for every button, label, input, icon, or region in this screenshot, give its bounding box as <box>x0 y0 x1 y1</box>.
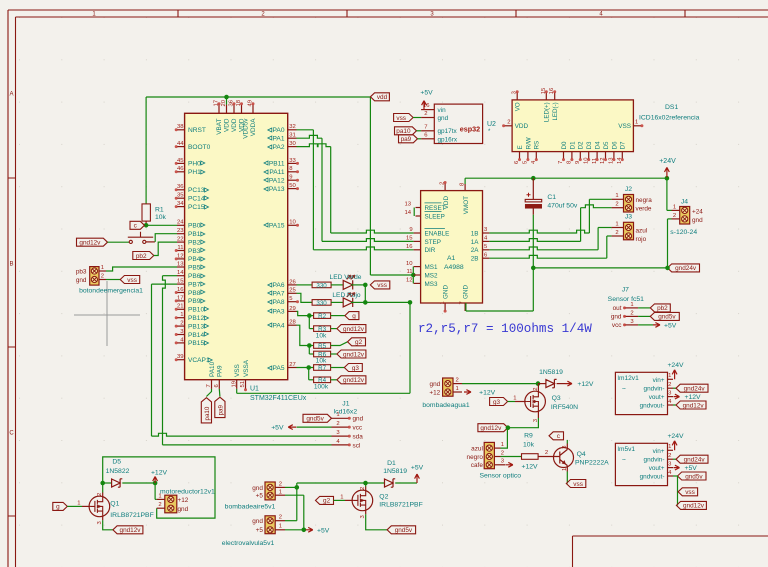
global label pa9 (vertical) <box>215 397 225 417</box>
svg-text:J4: J4 <box>681 198 688 205</box>
U2 pin 6 gp16rx <box>421 138 434 140</box>
svg-text:1: 1 <box>635 119 638 125</box>
junction +24V arrow <box>665 176 670 181</box>
resistor R9 10k <box>522 454 539 460</box>
svg-text:14: 14 <box>177 270 184 276</box>
wire bombadeaire +5 <box>285 494 304 496</box>
wire PA4 to R5 <box>297 325 310 345</box>
svg-text:g: g <box>352 313 356 320</box>
svg-text:gnd: gnd <box>430 381 441 388</box>
svg-text:PA5: PA5 <box>273 365 285 372</box>
svg-text:PH1: PH1 <box>188 169 201 176</box>
svg-text:J1: J1 <box>342 400 349 407</box>
svg-text:25: 25 <box>289 288 296 294</box>
DS1 pin 1 VSS <box>618 119 643 130</box>
DS1 bottom pin 5 R/W <box>523 137 533 164</box>
svg-text:+12: +12 <box>429 389 440 396</box>
svg-text:pb2: pb2 <box>136 253 147 260</box>
wire R1 to PB0 <box>146 224 177 226</box>
A1 pin 5 2A <box>471 244 490 254</box>
svg-text:PB14: PB14 <box>188 332 204 339</box>
U1 pin 33 PB11 <box>264 158 299 168</box>
wire 330 to LED verde <box>331 284 343 286</box>
wire PA9 to pa9 label <box>218 389 221 397</box>
svg-text:VDD: VDD <box>231 118 238 132</box>
svg-text:1N5822: 1N5822 <box>106 468 130 475</box>
wire PA1 to STEP (top) <box>297 135 323 138</box>
svg-text:r2,r5,r7 = 100ohms 1/4W: r2,r5,r7 = 100ohms 1/4W <box>418 322 592 336</box>
svg-text:1N5819: 1N5819 <box>539 369 563 376</box>
junction R1 bottom <box>144 223 149 228</box>
svg-text:2: 2 <box>456 378 459 384</box>
svg-text:gndvout-: gndvout- <box>640 402 665 409</box>
DS1 top pin 16 LED(-) <box>549 87 559 120</box>
svg-text:SLEEP: SLEEP <box>425 213 445 220</box>
svg-text:D0: D0 <box>561 141 568 149</box>
wire electrovalvula gnd <box>285 520 297 522</box>
DS1 bottom pin 6 E <box>514 145 524 164</box>
svg-text:Sensor optico: Sensor optico <box>480 473 522 480</box>
wire Q2 drain up <box>365 483 367 487</box>
svg-text:PB10: PB10 <box>188 307 204 314</box>
wire PA10 to pa10 label <box>206 389 211 397</box>
svg-text:R1: R1 <box>155 206 164 213</box>
power symbol +5V at esp32 vin <box>422 101 427 110</box>
svg-text:IRF540N: IRF540N <box>551 404 578 411</box>
svg-text:+5V: +5V <box>271 425 284 432</box>
junction PA5/R7/R4 <box>306 365 311 370</box>
resistor R1 10k <box>142 204 167 225</box>
U1 pin 23 PB1 <box>177 228 205 238</box>
svg-text:7: 7 <box>424 124 427 130</box>
svg-text:46: 46 <box>177 166 184 172</box>
svg-text:J7: J7 <box>622 287 629 294</box>
svg-text:gnd12v: gnd12v <box>683 503 705 510</box>
svg-text:MS2: MS2 <box>425 272 438 279</box>
wire J7 gnd to gnd5v <box>638 315 650 317</box>
svg-text:electrovalvula5v1: electrovalvula5v1 <box>222 540 275 547</box>
wire bombadeagua gnd to Q3 drain <box>462 383 538 385</box>
global label gnd5v at J7 <box>650 312 679 320</box>
U2 pin 7 gp17tx <box>421 130 434 132</box>
svg-text:Q4: Q4 <box>577 451 586 458</box>
wire PA2 to ENABLE (top) <box>297 144 331 147</box>
svg-text:PA0: PA0 <box>273 127 285 134</box>
resistor R2 100ohm <box>314 313 331 319</box>
svg-text:2: 2 <box>630 310 633 316</box>
svg-text:negra: negra <box>636 197 653 204</box>
wire g3 to Q3 gate <box>508 401 515 403</box>
wire R6 to gnd12v <box>331 353 337 355</box>
wire scl vertical <box>163 276 166 445</box>
svg-text:PA3: PA3 <box>273 309 285 316</box>
svg-text:vss: vss <box>377 282 387 289</box>
svg-text:gnd24v: gnd24v <box>684 457 706 464</box>
wire pa9 to gp16rx <box>418 138 422 140</box>
svg-text:PA11: PA11 <box>269 169 284 176</box>
svg-text:1: 1 <box>440 301 446 304</box>
power symbol +5V at lm5v1 <box>674 465 680 470</box>
svg-text:+12V: +12V <box>151 470 168 477</box>
svg-text:LED Verde: LED Verde <box>330 274 362 281</box>
svg-text:26: 26 <box>289 279 296 285</box>
resistor 330 (LED rojo) <box>312 300 331 306</box>
U1 top pin 20 VDD <box>221 99 231 132</box>
svg-text:ENABLE: ENABLE <box>425 230 450 237</box>
A1 pin 15 STEP <box>406 236 441 246</box>
svg-text:2: 2 <box>101 273 104 279</box>
wire R4 to gnd12v <box>331 379 337 381</box>
svg-text:+5V: +5V <box>317 527 330 534</box>
svg-text:D3: D3 <box>586 141 593 149</box>
svg-text:VDD: VDD <box>443 196 450 210</box>
svg-text:vcc: vcc <box>353 425 363 432</box>
global label c at Q4 <box>549 432 564 440</box>
global label g3 at Q3 <box>490 398 508 406</box>
svg-text:D5: D5 <box>603 141 610 149</box>
mcu U1 STM32F411CEUx body <box>185 113 288 379</box>
svg-text:2: 2 <box>533 387 539 390</box>
connector J1 lcd16x2 <box>332 400 364 449</box>
junction C1 top <box>531 176 536 181</box>
svg-text:MS1: MS1 <box>425 264 438 271</box>
svg-text:gnd: gnd <box>692 217 703 224</box>
svg-text:11: 11 <box>177 245 183 251</box>
svg-text:g2: g2 <box>323 498 331 505</box>
svg-text:1: 1 <box>336 412 339 418</box>
svg-text:2: 2 <box>279 515 282 521</box>
resistor R3 10k <box>314 326 331 332</box>
svg-text:36: 36 <box>177 184 184 190</box>
DS1 top pin 3 VO <box>512 90 522 111</box>
U1 top pin 18 VDD <box>236 99 246 132</box>
svg-text:1: 1 <box>673 204 676 210</box>
svg-text:azul: azul <box>471 446 483 453</box>
svg-text:PA8: PA8 <box>273 299 285 306</box>
LED Verde <box>343 280 353 289</box>
svg-text:1: 1 <box>668 373 671 379</box>
svg-text:VSS: VSS <box>618 123 631 130</box>
power module lm5v1 <box>615 443 673 485</box>
U1 pin 32 PA0 <box>268 124 297 134</box>
svg-text:LED Rojo: LED Rojo <box>332 292 361 299</box>
svg-text:gnd: gnd <box>252 518 263 525</box>
svg-text:gnd5v: gnd5v <box>306 416 324 423</box>
svg-text:PB2: PB2 <box>188 239 201 246</box>
svg-text:gp17tx: gp17tx <box>438 128 458 135</box>
svg-text:D1: D1 <box>387 460 396 467</box>
global label vss at LEDs <box>370 281 390 289</box>
svg-text:13: 13 <box>177 261 184 267</box>
U1 pin 16 PB8 <box>175 287 205 297</box>
wire electrovalvula +5 <box>285 529 304 531</box>
svg-text:gnd: gnd <box>611 314 622 321</box>
svg-text:16: 16 <box>406 244 413 250</box>
svg-text:1: 1 <box>501 442 504 448</box>
U1 pin 13 PB5 <box>177 261 205 271</box>
wire VSS run under U1 <box>237 392 410 394</box>
connector electrovalvula5v1 <box>222 515 285 547</box>
stepper driver A1 A4988 body <box>421 191 483 303</box>
diode D? 1N5819 at Q3 <box>538 383 546 385</box>
svg-text:330: 330 <box>316 300 327 307</box>
svg-text:g: g <box>56 504 60 511</box>
svg-text:15: 15 <box>177 279 184 285</box>
svg-text:PC15: PC15 <box>188 204 205 211</box>
wire D1 cathode to +5V <box>395 482 417 484</box>
svg-text:VO: VO <box>515 102 522 111</box>
global label gnd12v at button <box>77 238 108 246</box>
resistor R7 100ohm <box>314 365 331 371</box>
A1 pin 16 DIR <box>406 244 436 254</box>
svg-text:PA1: PA1 <box>273 136 285 143</box>
svg-text:s-120-24: s-120-24 <box>670 229 697 236</box>
svg-text:PA10: PA10 <box>209 361 216 377</box>
svg-text:bombadeagua1: bombadeagua1 <box>422 402 469 409</box>
transistor Q1 IRLB8721PBF <box>77 493 154 525</box>
svg-text:7: 7 <box>206 384 212 387</box>
power symbol +12V at motoreductor <box>153 477 158 484</box>
svg-text:PA7: PA7 <box>273 291 285 298</box>
global label gnd12v at R3 <box>337 325 366 333</box>
lcd DS1 ICD16x02referencia body <box>512 100 633 152</box>
U1 pin 25 PA7 <box>268 288 297 298</box>
global label vdd <box>370 93 389 101</box>
svg-text:1: 1 <box>513 395 516 401</box>
wire lm5v1 pin4 <box>673 475 678 477</box>
wire vdd vertical to A4988 MS pins <box>369 97 371 275</box>
svg-text:pa10: pa10 <box>204 406 211 420</box>
svg-text:50: 50 <box>289 183 296 189</box>
svg-text:1: 1 <box>101 265 104 271</box>
A1 pin 10 MS1 <box>406 261 438 271</box>
svg-text:15: 15 <box>406 236 413 242</box>
junction LED rojo <box>363 300 368 305</box>
svg-text:J3: J3 <box>625 214 632 221</box>
svg-text:D2: D2 <box>578 141 585 149</box>
svg-text:A1: A1 <box>447 255 456 262</box>
svg-text:vout+: vout+ <box>649 394 665 401</box>
diode D5 1N5822 <box>112 479 123 487</box>
svg-text:2: 2 <box>507 119 510 125</box>
wire down to R4 <box>308 368 310 380</box>
svg-text:VDD: VDD <box>515 123 529 130</box>
wire LED net vertical <box>364 285 366 303</box>
svg-text:PB12: PB12 <box>188 315 204 322</box>
svg-text:C: C <box>9 431 14 437</box>
svg-text:2: 2 <box>615 202 618 208</box>
connector J3 <box>612 214 648 243</box>
svg-text:1: 1 <box>279 490 282 496</box>
wire PA0 to DIR (top) <box>297 129 314 131</box>
svg-text:1: 1 <box>77 500 80 506</box>
global label vss at esp32 <box>394 114 414 122</box>
wire J4 pin2 to gnd24v <box>667 219 669 268</box>
wire g2 to Q2 gate <box>334 499 346 501</box>
A1 pin 9 ENABLE <box>409 227 449 237</box>
connector J4 s-120-24 <box>670 198 703 236</box>
svg-text:PA12: PA12 <box>269 178 285 185</box>
svg-text:33: 33 <box>289 158 296 164</box>
svg-text:vdd: vdd <box>377 94 388 101</box>
svg-text:+24: +24 <box>692 209 703 216</box>
svg-text:2: 2 <box>673 213 676 219</box>
svg-text:51: 51 <box>240 381 246 388</box>
wire D5 cathode to +12V <box>122 482 155 484</box>
junction +12V motoreductor <box>153 481 158 486</box>
svg-text:D6: D6 <box>611 141 618 149</box>
svg-text:MS3: MS3 <box>425 281 438 288</box>
U1 pin 10 PA15 <box>264 220 299 230</box>
global label gnd12v below lm5v1 <box>676 501 706 509</box>
svg-text:gndvin-: gndvin- <box>644 386 665 393</box>
wire vdd to MS2 <box>370 274 413 276</box>
svg-text:U2: U2 <box>487 121 496 128</box>
svg-text:lm5v1: lm5v1 <box>618 446 636 453</box>
svg-text:2: 2 <box>336 421 339 427</box>
svg-text:botondeemergencia1: botondeemergencia1 <box>79 287 143 294</box>
wire LED net to right <box>365 301 410 303</box>
svg-text:gnd: gnd <box>76 277 87 284</box>
wire tying MS1 MS2 MS3 <box>412 267 414 284</box>
wire down to R3 <box>308 316 310 329</box>
svg-text:PC13: PC13 <box>188 187 205 194</box>
global label g2 at R5 <box>348 338 366 346</box>
junction Q1 drain / D5 <box>100 481 105 486</box>
U1 pin 39 VCAP1 <box>175 354 213 364</box>
global label gnd12v at lm12v1 <box>676 401 706 409</box>
svg-text:1: 1 <box>562 468 568 471</box>
power symbol +12V at lm12v1 <box>674 394 680 399</box>
global label g2 at Q2 <box>316 496 334 504</box>
svg-text:+12V: +12V <box>479 390 496 397</box>
U1 pin 34 PC15 <box>175 201 209 211</box>
wire J1 vcc to +5V <box>297 426 332 428</box>
svg-text:scl: scl <box>353 442 361 449</box>
DS1 bottom pin 10 D3 <box>583 141 593 164</box>
svg-text:GND: GND <box>463 285 470 299</box>
transistor Q2 IRLB8721PBF <box>340 487 423 519</box>
wire J7 vcc to +5V <box>638 324 653 326</box>
wire R7 to g3 <box>331 367 345 369</box>
global label pb2 at J7 <box>650 304 670 312</box>
svg-text:30: 30 <box>289 141 296 147</box>
svg-text:cafe: cafe <box>471 462 484 469</box>
wire botondeemergencia pin1 to PB5 <box>106 267 177 271</box>
power module lm12v1 <box>615 372 673 414</box>
wire 2A to J3 pin1 <box>489 247 598 250</box>
wire lm12v1 pin4 <box>673 404 676 406</box>
svg-text:vin+: vin+ <box>653 448 665 455</box>
svg-text:+5V: +5V <box>685 465 698 472</box>
svg-text:IRLB8721PBF: IRLB8721PBF <box>110 512 153 519</box>
svg-text:PNP2222A: PNP2222A <box>575 460 609 467</box>
global label c (R1/PB0) <box>130 221 145 229</box>
junction Q3 drain <box>536 381 541 386</box>
wire +12V to motoreductor pin1 <box>154 483 156 499</box>
svg-text:1A: 1A <box>471 239 480 246</box>
svg-text:gnd24v: gnd24v <box>675 265 697 272</box>
wire ENABLE row <box>331 230 414 233</box>
svg-text:vss: vss <box>396 115 406 122</box>
wire vss to esp32 gnd <box>413 117 421 119</box>
svg-text:VDD5v: VDD5v <box>243 118 250 139</box>
wire C1 to gnd24v <box>532 215 534 268</box>
svg-text:A4988: A4988 <box>444 264 464 271</box>
svg-text:VSS: VSS <box>234 364 241 377</box>
svg-text:R9: R9 <box>524 433 533 440</box>
svg-text:32: 32 <box>289 124 296 130</box>
svg-text:bombadeaire5v1: bombadeaire5v1 <box>225 503 276 510</box>
esp32 module U2 body <box>434 104 482 144</box>
svg-text:vss: vss <box>573 481 583 488</box>
U1 pin 31 PA1 <box>268 133 297 143</box>
svg-text:13: 13 <box>404 202 411 208</box>
wire lm5v1 pin2 <box>673 458 676 460</box>
transistor Q3 IRF540N <box>513 384 578 423</box>
svg-text:Q3: Q3 <box>552 395 561 402</box>
wire 1B to J2 pin1 <box>489 230 589 233</box>
svg-text:1: 1 <box>630 302 633 308</box>
svg-text:1: 1 <box>180 312 183 318</box>
svg-text:2: 2 <box>668 453 671 459</box>
power symbol +12V at bombadeagua <box>464 390 471 395</box>
U1 pin 4 PB15 <box>175 337 209 347</box>
svg-text:470uf 50v: 470uf 50v <box>547 203 577 210</box>
wire J4 pin2 stub link <box>668 218 672 220</box>
svg-text:g3: g3 <box>352 365 360 372</box>
capacitor C1 470uf 50v <box>525 178 578 215</box>
U1 pin 44 BOOT0 <box>175 141 211 151</box>
svg-text:+5: +5 <box>256 527 264 534</box>
wire gnd24v to A4988 GND <box>532 268 534 311</box>
global label pa10 (vertical) <box>201 398 211 423</box>
A1 pin 1 GND <box>440 285 450 313</box>
svg-text:DIR: DIR <box>425 247 436 254</box>
global label pa10 at esp32 <box>395 127 417 135</box>
global label gnd12v at Q1 <box>113 526 143 534</box>
svg-text:+12: +12 <box>178 497 189 504</box>
svg-text:gndvout-: gndvout- <box>640 473 665 480</box>
wire PA5 to R7 <box>297 367 314 369</box>
wire GND7 stub link <box>465 303 467 311</box>
svg-text:gnd12v: gnd12v <box>343 351 365 358</box>
A1 pin 6 2B <box>471 252 490 262</box>
svg-text:PC14: PC14 <box>188 196 205 203</box>
wire tying RESET SLEEP <box>413 208 415 217</box>
junction PA3/R2/R3 <box>307 313 312 318</box>
svg-text:11: 11 <box>406 269 412 275</box>
svg-text:vcc: vcc <box>612 322 622 329</box>
svg-text:+12V: +12V <box>685 394 702 401</box>
wire U1 VSS pin down <box>236 389 238 393</box>
wire LED verde to vss <box>351 284 365 286</box>
wire Q1 drain up <box>102 483 104 493</box>
svg-text:PA9: PA9 <box>217 365 224 377</box>
DS1 bottom pin 13 D6 <box>609 141 619 164</box>
svg-text:out: out <box>613 305 622 312</box>
svg-text:pa10: pa10 <box>396 128 411 135</box>
svg-text:2: 2 <box>501 450 504 456</box>
U1 top pin 17 VBAT <box>214 100 224 135</box>
U1 pin 35 PC14 <box>175 193 209 203</box>
junction Q2 drain <box>363 481 368 486</box>
svg-text:verde: verde <box>636 205 652 212</box>
wire R2 to g <box>331 315 345 317</box>
A1 pin 13 RESET <box>404 202 445 212</box>
svg-text:1: 1 <box>615 221 618 227</box>
svg-text:E: E <box>517 145 524 149</box>
